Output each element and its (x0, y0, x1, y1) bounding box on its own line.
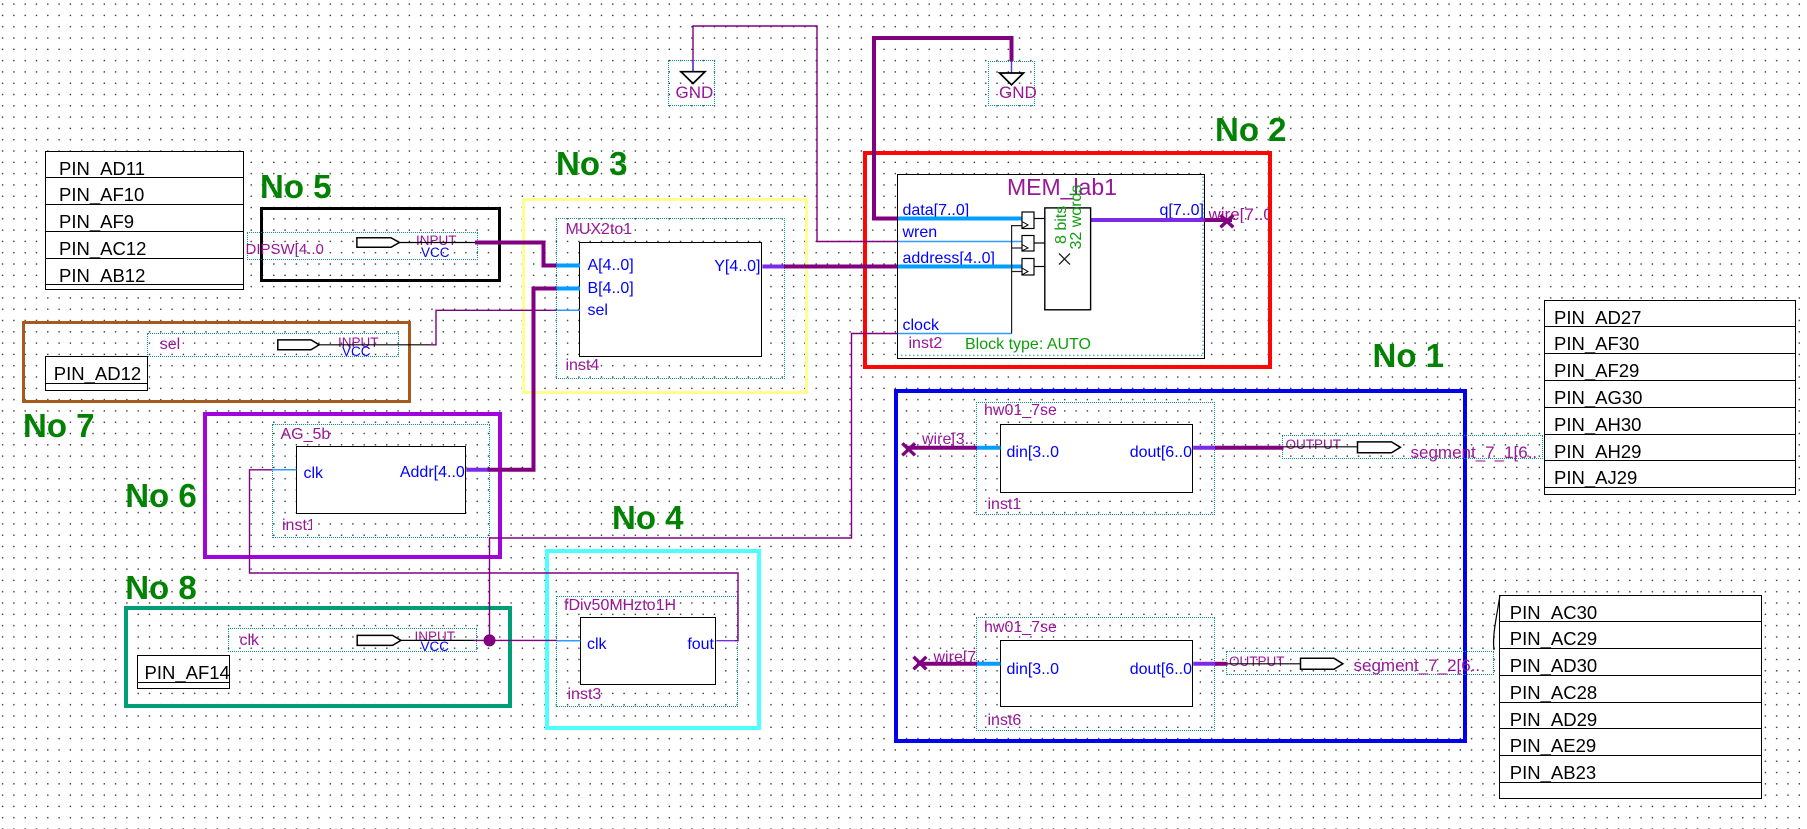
net label wire[7.. (934, 650, 986, 666)
pin stub hw01 inst6 dout (violet) (1193, 662, 1215, 666)
wire hw01 inst1 input bus (906, 446, 977, 450)
selection edge MEM right (1202, 177, 1204, 356)
net label wire[3.. (922, 432, 974, 448)
title MEM_lab1 (1007, 176, 1117, 199)
pin stub MUX Y (violet) (762, 265, 784, 269)
pin stub MUX B (blue bus) (557, 287, 581, 291)
title MUX2to1 (566, 222, 633, 238)
pin table PIN_AF14 (137, 655, 231, 689)
pin stub AG clk (blue) (273, 469, 297, 471)
pin table left (DIPSW pins) (45, 151, 244, 291)
wire clk net to MEM clock (490, 334, 898, 641)
selection box fDiv inst3 (556, 596, 738, 707)
selection box DIPSW input (247, 232, 478, 261)
port label A[4..0] (588, 258, 634, 274)
label inst2 (909, 336, 943, 352)
wire fDiv fout to AG clk (250, 470, 739, 641)
wire OUTPUT2 line (black) (1228, 663, 1301, 665)
label No 5 (260, 170, 332, 203)
wire clk net to fDiv clk (474, 639, 557, 641)
highlight box No 8 (124, 606, 512, 708)
selection box GND1 (668, 60, 715, 106)
MEM input register wren (1022, 236, 1034, 252)
pin label segment_7_1[6.. (1411, 444, 1538, 461)
OUTPUT pin symbol segment_7_1 (1358, 442, 1401, 453)
block MUX2to1 inst4 (579, 242, 762, 356)
wire GND2 to MEM data bus (874, 38, 1012, 219)
wire GND1 to MEM wren (693, 26, 898, 242)
pin text VCC (sel) (342, 345, 371, 359)
pin stub MEM q internal (violet) (1091, 218, 1205, 222)
port label q[7..0] (1134, 203, 1204, 219)
pin text INPUT (sel) (338, 336, 379, 350)
port label address[4..0] (903, 251, 996, 267)
port label din[3..0 (inst1) (1007, 445, 1059, 461)
highlight box No 5 (260, 207, 501, 282)
pin stub hw01 inst1 din (blue bus) (977, 446, 1001, 450)
pin stub fDiv clk (blue) (557, 640, 581, 642)
pin line MEM clock internal (blue) (898, 333, 1012, 335)
MEM RAM multiply mark (1059, 254, 1070, 265)
selection box clk input (228, 628, 477, 652)
port label dout[6..0 (inst6) (1112, 662, 1192, 678)
text GND2 (999, 84, 1037, 101)
pin text INPUT (clk) (415, 630, 456, 644)
port label fDiv clk (587, 637, 607, 653)
port label dout[6..0 (inst1) (1112, 445, 1192, 461)
net label DIPSW[4..0 (246, 242, 324, 257)
MEM register to RAM link wren (1034, 242, 1045, 244)
label inst4 (566, 358, 600, 374)
label No 7 (23, 409, 95, 442)
port label clock (903, 318, 939, 334)
INPUT pin symbol clk (357, 635, 401, 645)
port label sel (588, 303, 608, 319)
pin table right top (segment_7_1 pins) (1544, 300, 1796, 495)
svg-text:32 words: 32 words (1068, 185, 1085, 250)
port label B[4..0] (588, 281, 634, 297)
net label wire[7..0] (1209, 206, 1269, 223)
label inst1 (988, 497, 1022, 513)
selection box OUTPUT segment_7_2 (1226, 651, 1494, 676)
dangling marker wire[7..0] (1221, 215, 1234, 227)
port label AG clk (304, 466, 324, 482)
label No 3 (556, 147, 628, 180)
label Block type AUTO (965, 337, 1091, 353)
pin line MEM data internal (blue bus) (898, 217, 1022, 221)
selection box MUX inst4 (556, 218, 784, 379)
selection edge MEM bottom (901, 354, 1203, 356)
MEM internal clock tap 3 (1012, 271, 1022, 273)
dangling marker wire[3..] (902, 443, 915, 455)
title fDiv50MHzto1Hz (564, 598, 676, 614)
label No 4 (612, 501, 684, 534)
wire DIPSW input line (black) (399, 242, 475, 244)
MEM internal clock tap 2 (1012, 247, 1022, 249)
selection box OUTPUT segment_7_1 (1282, 435, 1543, 459)
label No 8 (125, 571, 197, 604)
MEM register to RAM link data (1034, 218, 1045, 220)
port label data[7..0] (903, 203, 970, 219)
block hw01_7seg inst1 (1000, 424, 1194, 493)
wire sel input line (black) (319, 344, 430, 346)
pin stub hw01 inst1 dout (violet) (1193, 446, 1215, 450)
port label wren (903, 225, 938, 241)
ground symbol GND2 (1000, 73, 1024, 85)
pin stub fDiv fout (violet) (716, 640, 735, 642)
block fDiv50MHzto1Hz inst3 (580, 617, 717, 685)
wire hw01 inst6 input bus (917, 662, 977, 666)
selection box AG inst (272, 424, 490, 538)
text GND1 (676, 84, 714, 101)
wire clk input line (black) (401, 639, 474, 641)
highlight box No 4 (545, 549, 760, 731)
label AG inst (282, 518, 312, 534)
dangling marker wire[7..] (914, 657, 927, 670)
highlight box No 1 (894, 389, 1467, 743)
port label din[3..0 (inst6) (1007, 662, 1059, 678)
title AG_5b (281, 427, 331, 443)
wire sel net to MUX sel (430, 310, 558, 345)
highlight box No 7 (22, 321, 411, 403)
pin text VCC (clk) (421, 640, 450, 654)
MEM input register data (1022, 212, 1034, 229)
label No 6 (125, 479, 197, 512)
pin line MEM wren internal (blue) (898, 241, 1022, 243)
block MEM_lab1 inst2 (897, 174, 1204, 359)
wire DIPSW bus to MUX A (475, 243, 558, 266)
wire OUTPUT1 line (black) (1284, 446, 1358, 448)
wire MUX Y bus to MEM address (784, 265, 898, 269)
OUTPUT pin symbol segment_7_2 (1301, 658, 1343, 669)
block hw01_7seg inst6 (1000, 640, 1194, 706)
selection box hw01 inst6 (976, 617, 1215, 730)
pin table PIN_AD12 (45, 356, 149, 391)
highlight box No 3 (522, 198, 809, 394)
pin stub MUX sel (blue) (557, 309, 581, 311)
INPUT pin symbol sel (278, 340, 319, 350)
MEM register to RAM link address (1034, 266, 1045, 268)
MEM RAM array box (1045, 208, 1091, 310)
pin label segment_7_2[6.. (1354, 657, 1481, 674)
wire AG Addr bus to MUX B (488, 289, 558, 470)
selection box hw01 inst1 (976, 402, 1215, 515)
net label clk (240, 633, 260, 649)
wire hw01 inst6 output bus (1215, 662, 1228, 666)
port label Addr[4..0 (385, 465, 465, 481)
junction node clk (484, 634, 496, 646)
net label sel (160, 337, 180, 353)
pin text VCC (DIPSW) (421, 246, 450, 260)
label No 1 (1373, 339, 1445, 372)
wire hw01 inst1 output bus (1215, 446, 1284, 450)
MEM input register address (1022, 259, 1034, 276)
port label fout (644, 637, 714, 653)
pin stub GND2 (violet) (1011, 61, 1013, 73)
label inst6 (988, 713, 1022, 729)
wire MEM q output bus (1205, 218, 1232, 222)
INPUT pin symbol DIPSW (357, 238, 400, 248)
pin text OUTPUT (segment_7_1) (1286, 438, 1342, 452)
pin text OUTPUT (segment_7_2) (1229, 655, 1285, 669)
pin stub MUX A (blue bus) (557, 264, 581, 268)
ground symbol GND1 (681, 72, 705, 84)
leader squiggle to pin table (1494, 595, 1500, 650)
label No 2 (1215, 113, 1287, 146)
port label Y[4..0] (691, 259, 761, 275)
MEM internal clock distribution line (1012, 226, 1022, 334)
selection box sel input (147, 333, 399, 357)
pin stub GND1 (violet) (692, 60, 694, 72)
highlight box No 2 (863, 151, 1272, 369)
highlight box No 6 (203, 412, 502, 559)
title hw01_7seg inst6 (984, 620, 1057, 636)
block AG_5b inst (296, 446, 467, 514)
pin stub AG Addr (violet) (466, 468, 487, 472)
title hw01_7seg inst1 (984, 403, 1057, 419)
pin table right bottom (segment_7_2 pins) (1499, 595, 1762, 800)
selection box GND2 (988, 61, 1035, 106)
pin stub hw01 inst6 din (blue bus) (977, 662, 1001, 666)
label inst3 (568, 687, 602, 703)
pin line MEM address internal (blue bus) (898, 265, 1022, 269)
pin text INPUT (DIPSW) (416, 234, 457, 248)
